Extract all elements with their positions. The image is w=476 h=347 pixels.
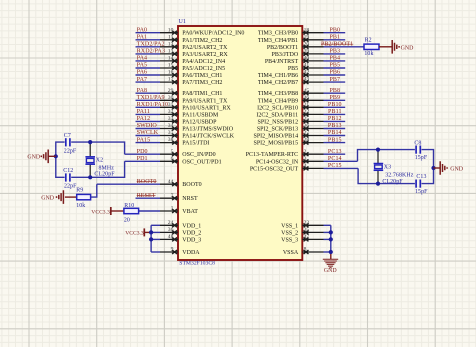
svg-text:7: 7 — [171, 193, 174, 199]
svg-text:U1: U1 — [179, 19, 187, 25]
pin 30 (PA9/USART1_TX) left — [160, 95, 228, 104]
wire net RESET — [136, 197, 161, 199]
pin 42 (TIM4_CH1/PB6) right — [258, 70, 324, 79]
wire net PB8 — [324, 92, 346, 94]
svg-text:VDD_1: VDD_1 — [182, 223, 201, 229]
crystal X3 32.768KHz — [374, 150, 414, 186]
wire net VSS_1 — [324, 224, 331, 226]
wire net VDDA — [151, 251, 160, 253]
wire net PB4 — [324, 60, 346, 62]
svg-text:32: 32 — [168, 109, 174, 115]
ground GND (R9) — [41, 190, 76, 204]
pin 34 (PA13/JTMS/SWDIO) left — [160, 123, 234, 132]
svg-text:13: 13 — [168, 49, 174, 55]
svg-text:PB3: PB3 — [329, 49, 340, 55]
svg-text:38: 38 — [168, 137, 174, 143]
svg-text:STM32F103C8: STM32F103C8 — [179, 261, 215, 267]
pin 5 (OSC_IN/PD0) left — [160, 149, 216, 158]
svg-text:VSS_1: VSS_1 — [281, 223, 298, 229]
svg-text:PA15/JTDI: PA15/JTDI — [182, 141, 209, 147]
wire net PB9 — [324, 99, 346, 101]
svg-text:C12: C12 — [63, 168, 73, 174]
svg-text:PB3/JTDO: PB3/JTDO — [272, 52, 299, 58]
svg-text:25: 25 — [304, 116, 310, 122]
wire net PA4 — [136, 60, 161, 62]
wire net PC13 — [324, 153, 346, 155]
svg-text:39: 39 — [304, 49, 310, 55]
wire net PC14 — [324, 160, 358, 162]
pin 7 (NRST) left — [160, 193, 198, 202]
svg-text:PC14: PC14 — [328, 156, 342, 162]
resistor R9 10k — [76, 188, 90, 209]
svg-text:I2C2_SCL/PB10: I2C2_SCL/PB10 — [257, 105, 298, 111]
svg-text:BOOT0: BOOT0 — [137, 179, 157, 185]
svg-text:R2: R2 — [365, 38, 372, 44]
svg-text:PA13/JTMS/SWDIO: PA13/JTMS/SWDIO — [182, 127, 233, 133]
svg-text:5: 5 — [171, 149, 174, 155]
svg-text:PB12: PB12 — [328, 116, 342, 122]
wire net PB0 — [324, 32, 346, 34]
wire net PB12 — [324, 120, 346, 122]
pin 33 (PA12/USBDP) left — [160, 116, 217, 125]
svg-text:48: 48 — [168, 234, 174, 240]
svg-text:PB8: PB8 — [329, 88, 340, 94]
svg-text:PA8: PA8 — [137, 88, 147, 94]
svg-text:PB11: PB11 — [328, 109, 342, 115]
svg-text:PC15-OSC32_OUT: PC15-OSC32_OUT — [250, 166, 299, 172]
svg-text:C13: C13 — [416, 174, 426, 180]
svg-text:46: 46 — [304, 95, 310, 101]
pin 32 (PA11/USBDM) left — [160, 109, 219, 118]
wire net PD0 — [125, 153, 160, 155]
svg-text:9: 9 — [171, 247, 174, 253]
junction dots VSS bundle — [329, 230, 333, 254]
svg-text:VCC3.3: VCC3.3 — [125, 231, 144, 237]
svg-text:PA3/USART2_RX: PA3/USART2_RX — [182, 52, 228, 58]
pin 9 (VDDA) left — [160, 247, 200, 256]
svg-text:TXD1/PA9: TXD1/PA9 — [137, 95, 165, 101]
pin 36 (VDD_2) left — [160, 227, 201, 236]
wire net PB11 — [324, 113, 346, 115]
svg-text:44: 44 — [168, 179, 174, 185]
svg-text:RESET: RESET — [137, 193, 156, 199]
svg-text:TIM4_CH2/PB7: TIM4_CH2/PB7 — [258, 80, 298, 86]
svg-text:PB15: PB15 — [328, 137, 342, 143]
svg-text:43: 43 — [304, 77, 310, 83]
svg-text:VDDA: VDDA — [182, 250, 200, 256]
svg-text:PA15: PA15 — [137, 137, 151, 143]
svg-text:TIM4_CH3/PB8: TIM4_CH3/PB8 — [258, 91, 298, 97]
svg-text:R10: R10 — [124, 203, 134, 209]
wire net PA7 — [136, 81, 161, 83]
pin 22 (I2C2_SDA/PB11) right — [256, 109, 323, 118]
ground GND (VSS) triangle — [323, 254, 338, 274]
svg-text:23: 23 — [304, 220, 310, 226]
svg-text:SWCLK: SWCLK — [137, 130, 159, 136]
svg-text:28: 28 — [304, 137, 310, 143]
svg-text:PB4/JNTRST: PB4/JNTRST — [265, 59, 299, 65]
svg-text:37: 37 — [168, 130, 174, 136]
svg-text:42: 42 — [304, 70, 310, 76]
svg-text:PA10/USART1_RX: PA10/USART1_RX — [182, 105, 231, 111]
svg-text:PA2/USART2_TX: PA2/USART2_TX — [182, 45, 228, 51]
svg-text:VDD_3: VDD_3 — [182, 237, 201, 243]
svg-text:47: 47 — [304, 234, 310, 240]
svg-text:15pF: 15pF — [415, 155, 428, 161]
wire net PA6 — [136, 74, 161, 76]
svg-text:1: 1 — [171, 206, 174, 212]
svg-text:PC15: PC15 — [328, 163, 342, 169]
svg-text:21: 21 — [304, 102, 310, 108]
pin 10 (PA0/WKUP/ADC12_IN0) left — [160, 27, 244, 36]
svg-text:GND: GND — [324, 268, 338, 274]
svg-text:VSS_2: VSS_2 — [281, 230, 298, 236]
svg-text:CL20pF: CL20pF — [382, 179, 403, 185]
svg-text:PA4/ADC12_IN4: PA4/ADC12_IN4 — [182, 59, 225, 65]
svg-text:41: 41 — [304, 63, 310, 69]
wire net PB15 — [324, 142, 346, 144]
svg-text:31: 31 — [168, 102, 174, 108]
svg-text:CL20pF: CL20pF — [94, 172, 115, 178]
svg-text:PB7: PB7 — [329, 77, 340, 83]
wire net PB3 — [324, 53, 346, 55]
svg-text:20: 20 — [124, 218, 130, 224]
svg-text:PB2/BOOT1: PB2/BOOT1 — [321, 42, 353, 48]
wire X2 network bottom rail — [56, 156, 125, 177]
wire net BOOT0 — [97, 183, 160, 185]
svg-text:27: 27 — [304, 130, 310, 136]
svg-text:PA0: PA0 — [137, 27, 147, 33]
svg-text:OSC_IN/PD0: OSC_IN/PD0 — [182, 152, 215, 158]
wire net PA5 — [136, 67, 161, 69]
wire R9 to BOOT0 — [91, 184, 97, 197]
pin 40 (PB4/JNTRST) right — [265, 56, 324, 65]
svg-text:12: 12 — [168, 41, 174, 47]
pin 46 (TIM4_CH4/PB9) right — [258, 95, 324, 104]
svg-text:GND: GND — [401, 45, 415, 51]
pin 29 (PA8/TIM1_CH1) left — [160, 88, 222, 97]
svg-text:GND: GND — [41, 195, 55, 201]
pin 44 (BOOT0) left — [160, 179, 202, 188]
wire net PB10 — [324, 106, 346, 108]
svg-text:VBAT: VBAT — [182, 209, 198, 215]
svg-text:PB2/BOOT1: PB2/BOOT1 — [267, 45, 298, 51]
ground GND (X3 network) — [434, 161, 464, 175]
svg-text:GND: GND — [450, 166, 464, 172]
wire net PA12 — [136, 120, 161, 122]
svg-text:22pF: 22pF — [64, 149, 77, 155]
wire net VDD_3 — [151, 238, 160, 240]
svg-text:26: 26 — [304, 123, 310, 129]
svg-text:PB1: PB1 — [329, 35, 340, 41]
pin 16 (PA6/TIM3_CH1) left — [160, 70, 222, 79]
pin 17 (PA7/TIM3_CH2) left — [160, 77, 222, 86]
svg-text:SPI2_SCK/PB13: SPI2_SCK/PB13 — [257, 127, 298, 133]
pin 31 (PA10/USART1_RX) left — [160, 102, 231, 111]
pin 1 (VBAT) left — [160, 206, 198, 215]
pin 20 (PB2/BOOT1) right — [267, 41, 324, 50]
svg-text:40: 40 — [304, 56, 310, 62]
svg-text:RXD1/PA10: RXD1/PA10 — [137, 102, 168, 108]
svg-text:35: 35 — [304, 227, 310, 233]
pin 14 (PA4/ADC12_IN4) left — [160, 56, 225, 65]
svg-text:OSC_OUT/PD1: OSC_OUT/PD1 — [182, 159, 221, 165]
svg-text:PB10: PB10 — [328, 102, 342, 108]
pin 23 (VSS_1) right — [281, 220, 323, 229]
wire net PB6 — [324, 74, 346, 76]
svg-text:36: 36 — [168, 227, 174, 233]
wire net VSS_3 — [324, 238, 331, 240]
pin 11 (PA1/TIM2_CH2) left — [160, 34, 222, 43]
svg-text:SPI2_MISO/PB14: SPI2_MISO/PB14 — [254, 134, 299, 140]
svg-text:10k: 10k — [364, 51, 373, 57]
svg-text:2: 2 — [304, 149, 307, 155]
pin 39 (PB3/JTDO) right — [272, 49, 324, 58]
pin 37 (PA14/JTCK/SWCLK) left — [160, 130, 235, 139]
capacitor C8 15pF — [414, 141, 427, 162]
capacitor C13 15pF — [415, 174, 428, 195]
svg-text:10: 10 — [168, 27, 174, 33]
svg-text:32.768KHz: 32.768KHz — [385, 172, 414, 178]
svg-text:45: 45 — [304, 88, 310, 94]
svg-text:R9: R9 — [76, 188, 83, 194]
svg-text:BOOT0: BOOT0 — [182, 182, 201, 188]
crystal X2 8MHz — [85, 142, 115, 178]
svg-text:15: 15 — [168, 63, 174, 69]
pin 26 (SPI2_SCK/PB13) right — [257, 123, 324, 132]
wire net TXD1/PA9 — [136, 99, 161, 101]
pin 18 (TIM3_CH3/PB0) right — [258, 27, 324, 36]
svg-text:PB14: PB14 — [328, 130, 342, 136]
pin 35 (VSS_2) right — [281, 227, 323, 236]
svg-text:18: 18 — [304, 27, 310, 33]
svg-text:PA4: PA4 — [137, 56, 147, 62]
junction dots X2 network — [54, 140, 93, 179]
svg-text:TIM4_CH4/PB9: TIM4_CH4/PB9 — [258, 98, 298, 104]
wire net SWDIO — [136, 128, 161, 130]
wire net SWCLK — [136, 135, 161, 137]
wire net RXD2/PA3 — [136, 53, 161, 55]
svg-text:PB5: PB5 — [329, 63, 340, 69]
svg-text:24: 24 — [168, 220, 174, 226]
power VCC3.3 (VBAT) — [91, 207, 124, 215]
svg-text:PB0: PB0 — [329, 27, 340, 33]
svg-text:NRST: NRST — [182, 196, 198, 202]
wire X3 bottom rail (PC15) — [358, 168, 433, 184]
svg-text:X2: X2 — [96, 158, 103, 164]
wire net VSS_2 — [324, 231, 331, 233]
svg-text:X3: X3 — [384, 164, 391, 170]
svg-text:C8: C8 — [414, 141, 421, 147]
wire net PB1 — [324, 39, 346, 41]
svg-text:34: 34 — [168, 123, 174, 129]
svg-text:SPI2_MOSI/PB15: SPI2_MOSI/PB15 — [254, 141, 299, 147]
svg-text:PC13: PC13 — [328, 149, 342, 155]
svg-text:PA14/JTCK/SWCLK: PA14/JTCK/SWCLK — [182, 134, 234, 140]
wire net VDD_1 — [151, 224, 160, 226]
pin 47 (VSS_3) right — [281, 234, 323, 243]
svg-text:PD1: PD1 — [137, 156, 148, 162]
svg-text:TXD2/PA2: TXD2/PA2 — [137, 42, 165, 48]
pin 19 (TIM3_CH4/PB1) right — [258, 34, 324, 43]
svg-text:GND: GND — [27, 155, 41, 161]
wire VDD bundle vertical — [150, 225, 152, 252]
svg-text:PA9/USART1_TX: PA9/USART1_TX — [182, 98, 228, 104]
svg-text:PC13-TAMPER-RTC: PC13-TAMPER-RTC — [246, 152, 299, 158]
svg-text:PD0: PD0 — [137, 149, 148, 155]
svg-text:30: 30 — [168, 95, 174, 101]
resistor R2 10k — [364, 38, 379, 58]
svg-text:TIM3_CH4/PB1: TIM3_CH4/PB1 — [258, 38, 298, 44]
pin 13 (PA3/USART2_RX) left — [160, 49, 228, 58]
svg-text:PB5: PB5 — [288, 66, 298, 72]
svg-text:10k: 10k — [76, 203, 85, 209]
svg-text:PA12: PA12 — [137, 116, 151, 122]
wire X3 top rail (PC14) — [358, 150, 434, 168]
svg-text:6: 6 — [171, 156, 174, 162]
pin 2 (PC13-TAMPER-RTC) right — [246, 149, 324, 158]
pin 38 (PA15/JTDI) left — [160, 137, 209, 146]
pin 27 (SPI2_MISO/PB14) right — [254, 130, 324, 139]
svg-text:11: 11 — [168, 34, 174, 40]
svg-text:PA11/USBDM: PA11/USBDM — [182, 112, 219, 118]
svg-text:PA0/WKUP/ADC12_IN0: PA0/WKUP/ADC12_IN0 — [182, 31, 244, 37]
pin 12 (PA2/USART2_TX) left — [160, 41, 228, 50]
ground GND (R2) — [392, 40, 414, 54]
wire X2 network top rail — [56, 142, 125, 156]
power VCC3.3 (VDD) — [125, 228, 151, 236]
svg-text:PA6: PA6 — [137, 70, 147, 76]
svg-text:TIM3_CH3/PB0: TIM3_CH3/PB0 — [258, 31, 298, 37]
svg-text:PA1/TIM2_CH2: PA1/TIM2_CH2 — [182, 38, 222, 44]
pin 8 (VSSA) right — [283, 247, 324, 256]
wire net VBAT — [139, 210, 160, 212]
wire net PB2/BOOT1 — [324, 46, 365, 48]
svg-text:SWDIO: SWDIO — [137, 123, 158, 129]
pin 43 (TIM4_CH2/PB7) right — [258, 77, 324, 86]
svg-text:PB9: PB9 — [329, 95, 340, 101]
wire R2 to GND — [379, 46, 392, 48]
pin 24 (VDD_1) left — [160, 220, 201, 229]
junction dots X3 network — [376, 148, 436, 186]
wire net PB7 — [324, 81, 346, 83]
svg-text:PA7: PA7 — [137, 77, 147, 83]
svg-text:20: 20 — [304, 41, 310, 47]
svg-text:TIM4_CH1/PB6: TIM4_CH1/PB6 — [258, 73, 298, 79]
pin 6 (OSC_OUT/PD1) left — [160, 156, 222, 165]
svg-text:VCC3.3: VCC3.3 — [91, 209, 110, 215]
svg-text:22: 22 — [304, 109, 310, 115]
pin 25 (SPI2_NSS/PB12) right — [258, 116, 324, 125]
capacitor C12 22pF — [63, 168, 77, 190]
pin 3 (PC14-OSC32_IN) right — [256, 156, 324, 165]
pin 15 (PA5/ADC12_IN5) left — [160, 63, 225, 72]
wire net PC15 — [324, 167, 359, 169]
svg-text:14: 14 — [168, 56, 174, 62]
svg-text:VDD_2: VDD_2 — [182, 230, 201, 236]
svg-text:PA7/TIM3_CH2: PA7/TIM3_CH2 — [182, 80, 222, 86]
wire net PA15 — [136, 142, 161, 144]
svg-text:8: 8 — [304, 247, 307, 253]
wire net RXD1/PA10 — [136, 106, 161, 108]
svg-text:17: 17 — [168, 77, 174, 83]
svg-text:PA1: PA1 — [137, 35, 147, 41]
svg-text:29: 29 — [168, 88, 174, 94]
svg-text:22pF: 22pF — [64, 184, 77, 190]
wire net PB14 — [324, 135, 346, 137]
wire net PB13 — [324, 128, 346, 130]
wire net PA8 — [136, 92, 161, 94]
pin 45 (TIM4_CH3/PB8) right — [258, 88, 324, 97]
svg-text:SPI2_NSS/PB12: SPI2_NSS/PB12 — [258, 119, 299, 125]
IC U1 STM32F103C8 body — [178, 19, 302, 266]
svg-text:PB6: PB6 — [329, 70, 340, 76]
svg-text:PC14-OSC32_IN: PC14-OSC32_IN — [256, 159, 299, 165]
svg-text:33: 33 — [168, 116, 174, 122]
svg-text:VSS_3: VSS_3 — [281, 237, 298, 243]
pin 48 (VDD_3) left — [160, 234, 201, 243]
svg-text:C7: C7 — [64, 133, 71, 139]
wire net PA11 — [136, 113, 161, 115]
resistor R10 20 — [124, 203, 139, 224]
wire VSS bundle vertical — [330, 225, 332, 254]
svg-text:RXD2/PA3: RXD2/PA3 — [137, 49, 165, 55]
svg-text:PB13: PB13 — [328, 123, 342, 129]
svg-text:PA11: PA11 — [137, 109, 150, 115]
wire net TXD2/PA2 — [136, 46, 161, 48]
ground GND (X2 network) — [27, 150, 55, 164]
svg-text:PA8/TIM1_CH1: PA8/TIM1_CH1 — [182, 91, 222, 97]
svg-text:VSSA: VSSA — [283, 250, 299, 256]
capacitor C7 22pF — [64, 133, 77, 155]
svg-text:PA5/ADC12_IN5: PA5/ADC12_IN5 — [182, 66, 225, 72]
wire net VDD_2 — [151, 231, 160, 233]
pin 28 (SPI2_MOSI/PB15) right — [254, 137, 324, 146]
svg-text:PA12/USBDP: PA12/USBDP — [182, 119, 217, 125]
pin 4 (PC15-OSC32_OUT) right — [250, 163, 324, 172]
wire net PA0 — [136, 32, 161, 34]
svg-text:I2C2_SDA/PB11: I2C2_SDA/PB11 — [256, 112, 298, 118]
svg-text:19: 19 — [304, 34, 310, 40]
wire net PD1 — [125, 160, 160, 162]
pin 21 (I2C2_SCL/PB10) right — [257, 102, 323, 111]
wire net PB5 — [324, 67, 346, 69]
svg-text:PA5: PA5 — [137, 63, 147, 69]
svg-text:PB4: PB4 — [329, 56, 340, 62]
svg-text:PA6/TIM3_CH1: PA6/TIM3_CH1 — [182, 73, 222, 79]
junction dots VDD bundle — [149, 230, 153, 241]
svg-text:15pF: 15pF — [415, 189, 428, 195]
svg-text:4: 4 — [304, 163, 307, 169]
svg-text:3: 3 — [304, 156, 307, 162]
wire net PA1 — [136, 39, 161, 41]
svg-text:16: 16 — [168, 70, 174, 76]
pin 41 (PB5) right — [288, 63, 324, 72]
wire net VSSA — [324, 251, 331, 253]
